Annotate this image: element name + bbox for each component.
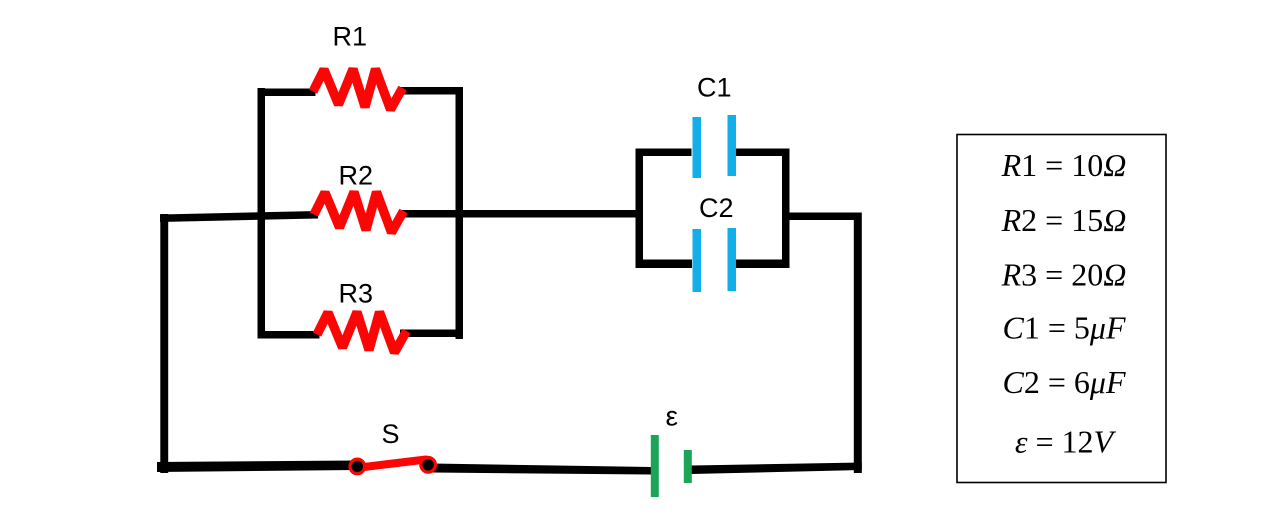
svg-text:ε: ε [666,401,678,432]
wire R1 right lead [398,87,463,95]
svg-text:R1: R1 [333,22,368,52]
svg-text:R2 = 15Ω: R2 = 15Ω [1001,202,1127,238]
wire resistor bank left bus [258,88,266,338]
svg-text:C2 = 6μF: C2 = 6μF [1003,364,1126,400]
wire capacitor box right to outer right vertical [786,213,860,221]
wire capacitor box top right segment [735,149,790,157]
battery ε [651,435,692,497]
svg-text:C2: C2 [699,193,734,223]
wire capacitor box right edge [782,149,790,265]
wire R3 right lead [400,330,463,338]
switch S [350,458,435,474]
wire main horizontal node right (R2 to capacitor box) [402,210,640,218]
wire capacitor box bottom right segment [735,260,790,269]
wire bottom middle segment (switch to battery) [432,464,651,475]
svg-text:R3 = 20Ω: R3 = 20Ω [1001,257,1127,293]
wire capacitor box bottom left segment [636,260,693,269]
svg-text:R3: R3 [339,279,374,309]
capacitor C2 [693,228,737,292]
svg-text:C1 = 5μF: C1 = 5μF [1003,310,1126,346]
wire left outer vertical [160,214,168,473]
wire resistor bank right bus [456,88,464,339]
svg-text:R1 = 10Ω: R1 = 10Ω [1001,147,1127,183]
svg-text:S: S [382,419,400,449]
wire bottom left segment [157,461,357,473]
wire R3 left lead [258,331,320,339]
legend box frame [957,135,1166,483]
resistor R1 [313,69,403,110]
wire capacitor box top left segment [636,149,692,157]
capacitor C1 [693,115,737,178]
svg-text:R2: R2 [339,161,374,191]
wire main horizontal node left (to R2) [160,211,318,222]
wire capacitor box left edge [636,149,644,265]
svg-text:ε = 12V: ε = 12V [1015,424,1117,460]
wire R1 left lead [258,89,316,97]
wire right outer vertical [854,213,862,474]
svg-text:C1: C1 [697,73,732,103]
wire bottom right segment (battery to right corner) [692,463,862,475]
resistor R2 [314,192,404,233]
resistor R3 [317,312,407,353]
